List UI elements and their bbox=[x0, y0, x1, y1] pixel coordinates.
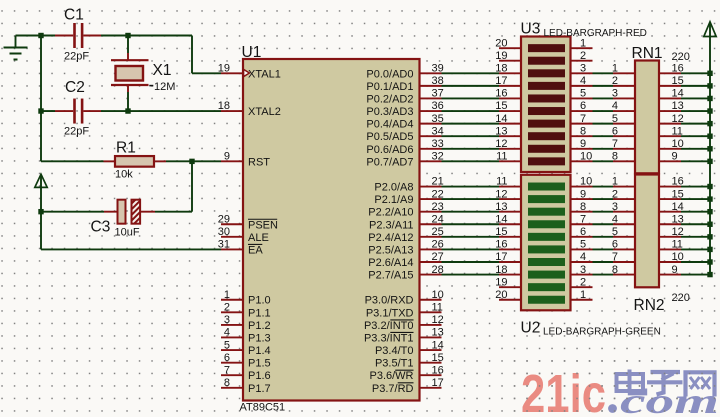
svg-text:4: 4 bbox=[612, 213, 618, 225]
svg-text:15: 15 bbox=[495, 226, 507, 238]
svg-text:4: 4 bbox=[224, 327, 230, 339]
svg-text:P1.7: P1.7 bbox=[248, 383, 271, 395]
junction C2/XTAL2 bbox=[38, 108, 43, 113]
U3 right pin stubs bbox=[571, 48, 593, 161]
svg-text:1: 1 bbox=[580, 37, 586, 49]
U3 left pin numbers bbox=[495, 37, 507, 162]
RN2 right pin stubs bbox=[659, 187, 681, 275]
junction RST node bbox=[189, 159, 194, 164]
U2 left pin stubs bbox=[499, 187, 521, 300]
X1 value label 12M bbox=[149, 85, 153, 87]
svg-text:7: 7 bbox=[612, 138, 618, 150]
svg-text:12: 12 bbox=[495, 188, 507, 200]
svg-text:220: 220 bbox=[672, 51, 690, 63]
svg-text:1: 1 bbox=[580, 289, 586, 301]
svg-text:P2.1/A9: P2.1/A9 bbox=[374, 194, 413, 206]
power terminal (up arrow) left bbox=[35, 174, 47, 249]
svg-text:10: 10 bbox=[432, 289, 444, 301]
svg-text:XTAL2: XTAL2 bbox=[248, 106, 281, 118]
junction node A (C1/X1) bbox=[38, 33, 43, 38]
svg-text:9: 9 bbox=[580, 188, 586, 200]
svg-text:4: 4 bbox=[580, 75, 586, 87]
wire C1 to node A bbox=[101, 35, 128, 37]
svg-text:6: 6 bbox=[612, 125, 618, 137]
svg-text:XTAL1: XTAL1 bbox=[248, 68, 281, 80]
capacitor C3 bbox=[41, 200, 192, 224]
U1 XTAL1 clock chevron pin 19 bbox=[244, 69, 250, 76]
svg-text:7: 7 bbox=[580, 213, 586, 225]
svg-text:P0.5/AD5: P0.5/AD5 bbox=[366, 131, 413, 143]
watermark chinese characters dian-zi-wang bbox=[617, 370, 715, 397]
svg-text:12: 12 bbox=[495, 138, 507, 150]
svg-text:9: 9 bbox=[224, 151, 230, 163]
svg-text:3: 3 bbox=[612, 88, 618, 100]
svg-text:7: 7 bbox=[580, 113, 586, 125]
svg-text:8: 8 bbox=[580, 201, 586, 213]
wire bus P2 to U2 bbox=[442, 187, 500, 275]
svg-text:19: 19 bbox=[218, 63, 230, 75]
svg-text:5: 5 bbox=[580, 88, 586, 100]
svg-text:17: 17 bbox=[495, 75, 507, 87]
RN1 right pin stubs bbox=[659, 73, 681, 161]
U1 right pin names bbox=[364, 68, 414, 395]
svg-text:12: 12 bbox=[432, 314, 444, 326]
svg-text:P3.1/TXD: P3.1/TXD bbox=[366, 307, 414, 319]
RN2 right pin numbers bbox=[672, 176, 684, 276]
svg-text:11: 11 bbox=[432, 302, 443, 314]
svg-text:P0.1/AD1: P0.1/AD1 bbox=[366, 81, 413, 93]
resistor network RN1 body bbox=[635, 61, 659, 174]
svg-text:15: 15 bbox=[432, 352, 444, 364]
wire RST to C3 vertical bbox=[191, 161, 193, 211]
svg-text:3: 3 bbox=[612, 201, 618, 213]
svg-text:1: 1 bbox=[612, 63, 618, 75]
svg-text:19: 19 bbox=[495, 276, 507, 288]
svg-text:30: 30 bbox=[218, 226, 230, 238]
svg-text:C3: C3 bbox=[91, 219, 111, 236]
RN1 left pin stubs bbox=[613, 73, 635, 161]
svg-text:P2.2/A10: P2.2/A10 bbox=[368, 207, 413, 219]
svg-text:14: 14 bbox=[495, 213, 507, 225]
node GND rail vertical bbox=[40, 36, 42, 162]
svg-text:RST: RST bbox=[248, 156, 270, 168]
svg-text:8: 8 bbox=[612, 151, 618, 163]
svg-text:9: 9 bbox=[580, 138, 586, 150]
svg-text:U1: U1 bbox=[242, 44, 262, 61]
svg-text:3: 3 bbox=[580, 264, 586, 276]
svg-text:5: 5 bbox=[612, 113, 618, 125]
svg-text:1: 1 bbox=[612, 176, 618, 188]
svg-text:18: 18 bbox=[218, 100, 230, 112]
wire GND-top to C1 bbox=[16, 35, 57, 37]
svg-text:5: 5 bbox=[580, 239, 586, 251]
U1 right pin stubs bbox=[420, 73, 442, 388]
svg-text:6: 6 bbox=[580, 100, 586, 112]
bargraph U2 LED-BARGRAPH-GREEN body bbox=[521, 175, 571, 310]
svg-text:18: 18 bbox=[495, 264, 507, 276]
svg-text:3: 3 bbox=[224, 314, 230, 326]
svg-text:P1.1: P1.1 bbox=[248, 307, 271, 319]
svg-text:P0.3/AD3: P0.3/AD3 bbox=[366, 106, 413, 118]
watermark 21ic logo bbox=[521, 364, 719, 417]
wire bus RN1 to VCC rail bbox=[681, 73, 710, 161]
capacitor C2 bbox=[41, 99, 101, 124]
svg-text:14: 14 bbox=[432, 339, 444, 351]
RN1 left pin numbers bbox=[612, 63, 618, 163]
svg-text:PSEN: PSEN bbox=[248, 219, 278, 231]
svg-text:P0.2/AD2: P0.2/AD2 bbox=[366, 93, 413, 105]
U1 left pin numbers bbox=[218, 63, 230, 390]
svg-text:29: 29 bbox=[218, 213, 230, 225]
U2 left pin numbers bbox=[495, 176, 507, 301]
svg-text:R1: R1 bbox=[116, 140, 136, 157]
U3 right pin numbers bbox=[580, 37, 592, 162]
svg-text:P2.5/A13: P2.5/A13 bbox=[368, 244, 413, 256]
grid dots overlay on watermark bbox=[505, 352, 720, 417]
RN2 left pin numbers bbox=[612, 176, 618, 276]
svg-text:6: 6 bbox=[580, 226, 586, 238]
svg-text:AT89C51: AT89C51 bbox=[240, 402, 286, 414]
svg-text:P1.4: P1.4 bbox=[248, 345, 271, 357]
svg-text:EA: EA bbox=[248, 244, 263, 256]
junction C3/power bbox=[38, 209, 43, 214]
power terminal (up arrow) right / VCC rail bbox=[704, 22, 716, 275]
svg-text:P2.7/A15: P2.7/A15 bbox=[368, 270, 413, 282]
crystal X1 bbox=[111, 36, 149, 112]
svg-text:8: 8 bbox=[224, 377, 230, 389]
wire XTAL2 net bbox=[101, 110, 221, 112]
svg-text:C2: C2 bbox=[65, 79, 85, 96]
svg-text:P2.0/A8: P2.0/A8 bbox=[374, 182, 413, 194]
svg-text:10k: 10k bbox=[115, 169, 133, 181]
svg-text:13: 13 bbox=[495, 201, 507, 213]
svg-text:ALE: ALE bbox=[248, 232, 269, 244]
svg-text:P3.2/INT0: P3.2/INT0 bbox=[364, 320, 414, 332]
svg-text:X1: X1 bbox=[153, 62, 172, 79]
svg-text:P1.3: P1.3 bbox=[248, 332, 271, 344]
svg-text:15: 15 bbox=[495, 100, 507, 112]
svg-text:2: 2 bbox=[580, 50, 586, 62]
svg-text:12M: 12M bbox=[154, 81, 175, 93]
svg-text:U3: U3 bbox=[521, 21, 541, 38]
wire EA net bbox=[41, 248, 221, 250]
svg-text:14: 14 bbox=[495, 113, 507, 125]
svg-text:2: 2 bbox=[224, 302, 230, 314]
svg-text:U2: U2 bbox=[521, 320, 541, 337]
svg-text:10: 10 bbox=[580, 151, 592, 163]
U2 right pin numbers bbox=[580, 176, 592, 301]
svg-text:P1.5: P1.5 bbox=[248, 358, 271, 370]
svg-text:16: 16 bbox=[495, 88, 507, 100]
svg-text:20: 20 bbox=[495, 289, 507, 301]
svg-text:20: 20 bbox=[495, 37, 507, 49]
svg-text:P0.7/AD7: P0.7/AD7 bbox=[366, 156, 413, 168]
svg-text:8: 8 bbox=[612, 264, 618, 276]
svg-text:7: 7 bbox=[612, 251, 618, 263]
svg-text:P0.6/AD6: P0.6/AD6 bbox=[366, 144, 413, 156]
wire bus U2 to RN2 bbox=[593, 187, 614, 275]
svg-text:P0.4/AD4: P0.4/AD4 bbox=[366, 119, 413, 131]
svg-text:4: 4 bbox=[612, 100, 618, 112]
svg-text:9: 9 bbox=[672, 264, 678, 276]
svg-text:P1.2: P1.2 bbox=[248, 320, 271, 332]
svg-text:22pF: 22pF bbox=[64, 51, 89, 63]
svg-text:11: 11 bbox=[496, 176, 507, 188]
svg-text:31: 31 bbox=[218, 239, 230, 251]
svg-text:P0.0/AD0: P0.0/AD0 bbox=[366, 68, 413, 80]
svg-text:C1: C1 bbox=[64, 7, 84, 24]
svg-text:1: 1 bbox=[224, 289, 230, 301]
U1 left pin stubs bbox=[221, 73, 243, 388]
svg-text:P2.4/A12: P2.4/A12 bbox=[368, 232, 413, 244]
svg-text:LED-BARGRAPH-GREEN: LED-BARGRAPH-GREEN bbox=[543, 327, 661, 338]
svg-text:11: 11 bbox=[496, 151, 507, 163]
ground bbox=[4, 36, 28, 60]
svg-text:13: 13 bbox=[432, 327, 444, 339]
wire bus U3 to RN1 bbox=[593, 73, 614, 161]
svg-text:16: 16 bbox=[432, 364, 444, 376]
wire node A to XTAL1 corner bbox=[128, 36, 221, 74]
svg-text:RN1: RN1 bbox=[632, 45, 663, 62]
svg-text:9: 9 bbox=[672, 151, 678, 163]
resistor R1 bbox=[41, 156, 166, 167]
svg-text:P3.6/WR: P3.6/WR bbox=[369, 370, 413, 382]
svg-text:P2.6/A14: P2.6/A14 bbox=[368, 257, 413, 269]
svg-text:2: 2 bbox=[612, 188, 618, 200]
wire bus RN2 to VCC rail bbox=[681, 187, 710, 275]
svg-text:P2.3/A11: P2.3/A11 bbox=[369, 219, 413, 231]
svg-text:2: 2 bbox=[612, 75, 618, 87]
svg-text:10uF: 10uF bbox=[115, 227, 140, 239]
svg-text:P1.0: P1.0 bbox=[248, 295, 271, 307]
svg-text:P1.6: P1.6 bbox=[248, 370, 271, 382]
svg-text:17: 17 bbox=[432, 377, 444, 389]
RN2 left pin stubs bbox=[613, 187, 635, 275]
svg-text:3: 3 bbox=[580, 63, 586, 75]
svg-text:P3.0/RXD: P3.0/RXD bbox=[365, 295, 414, 307]
svg-text:4: 4 bbox=[580, 251, 586, 263]
svg-text:P3.5/T1: P3.5/T1 bbox=[375, 358, 414, 370]
resistor network RN2 body bbox=[635, 175, 659, 288]
svg-text:22pF: 22pF bbox=[64, 126, 89, 138]
VCC rail junctions bbox=[707, 71, 712, 278]
U1 left pin names bbox=[248, 68, 281, 395]
svg-text:P3.7/RD: P3.7/RD bbox=[372, 383, 414, 395]
svg-text:2: 2 bbox=[580, 276, 586, 288]
svg-text:LED-BARGRAPH-RED: LED-BARGRAPH-RED bbox=[544, 28, 647, 39]
svg-text:17: 17 bbox=[495, 251, 507, 263]
svg-text:RN2: RN2 bbox=[634, 297, 665, 314]
RN1 right pin numbers bbox=[672, 63, 684, 163]
svg-text:16: 16 bbox=[495, 239, 507, 251]
svg-text:6: 6 bbox=[612, 239, 618, 251]
svg-text:18: 18 bbox=[495, 63, 507, 75]
svg-text:6: 6 bbox=[224, 352, 230, 364]
bargraph U3 LED-BARGRAPH-RED body bbox=[521, 37, 571, 173]
svg-text:5: 5 bbox=[224, 339, 230, 351]
svg-text:7: 7 bbox=[224, 364, 230, 376]
svg-text:13: 13 bbox=[495, 125, 507, 137]
svg-text:P3.3/INT1: P3.3/INT1 bbox=[364, 332, 414, 344]
svg-text:8: 8 bbox=[580, 125, 586, 137]
U2 right pin stubs bbox=[571, 187, 593, 300]
wire bus P0 to U3 bbox=[442, 73, 500, 161]
U3 left pin stubs bbox=[499, 48, 521, 161]
capacitor C1 bbox=[55, 23, 101, 48]
wire R1 to RST bbox=[166, 160, 221, 162]
svg-text:P3.4/T0: P3.4/T0 bbox=[375, 345, 414, 357]
svg-text:5: 5 bbox=[612, 226, 618, 238]
svg-text:220: 220 bbox=[672, 292, 690, 304]
MCU U1 AT89C51 body bbox=[243, 59, 420, 401]
svg-text:19: 19 bbox=[495, 50, 507, 62]
svg-text:10: 10 bbox=[580, 176, 592, 188]
U1 right pin numbers bbox=[432, 63, 444, 390]
